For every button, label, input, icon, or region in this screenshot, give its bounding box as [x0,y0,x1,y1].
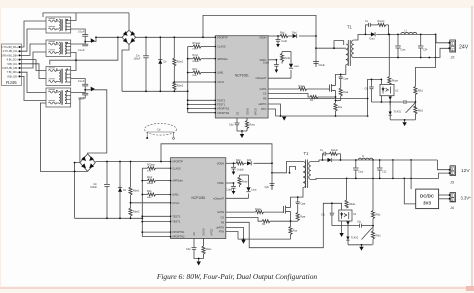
svg-text:U2: U2 [395,90,399,93]
RPD2 resistor wires [142,180,147,182]
capacitor Cvddl1 [275,60,277,65]
svg-text:UVLO: UVLO [217,80,224,84]
svg-text:Cout: Cout [400,49,405,52]
node arrow A2 [91,87,95,92]
primary snubber hook [334,41,344,49]
ground arrow for Cvdd1 [276,44,280,47]
RTN wire [268,109,275,116]
wire VPORTP node to transformer T1a primary [316,41,346,49]
diode Dout1 [371,32,375,36]
svg-text:CS: CS [263,92,267,96]
svg-text:0.1uF: 0.1uF [78,80,85,83]
output cap Cout1a [395,34,401,57]
junction dots input rail 1 [74,36,204,172]
svg-text:24V: 24V [459,44,469,50]
svg-text:RClass: RClass [147,164,156,167]
diode Ddd2 [247,161,251,165]
svg-text:Riim: Riim [193,75,198,77]
svg-text:Cbulk: Cbulk [319,64,326,67]
primary bulk cap Cbulk1 [313,62,319,68]
svg-text:Rlim: Rlim [193,68,198,71]
svg-text:Rdet2: Rdet2 [177,85,184,88]
RJ45 pin 6 wire [20,52,47,68]
capacitor C3 0.1uF [71,79,89,90]
svg-text:VDDH: VDDH [259,36,266,40]
DC/DC output wires to J4 [439,195,449,199]
resistor Rcs1 [334,103,337,111]
svg-text:1: 1 [452,42,454,46]
svg-text:Rpar: Rpar [343,91,348,94]
svg-text:Rsnub: Rsnub [331,149,339,152]
24V feedback bias vertical [388,34,390,84]
VPORTN1 wire [188,108,216,110]
svg-text:CLASS: CLASS [217,45,226,49]
wire BR2 left vertex elbow [75,163,80,219]
svg-text:Rrpd: Rrpd [147,176,153,179]
svg-text:Laux: Laux [251,189,257,192]
svg-text:ukRTN: ukRTN [258,102,266,106]
resistor Rdet2 [173,90,175,91]
diode Daux1 [289,64,293,68]
diode Daux2 [246,187,250,192]
divider Rfb2b [371,231,374,239]
resistor Rbias2 [346,178,348,208]
svg-text:DGND: DGND [247,108,250,115]
svg-text:Rsnub: Rsnub [378,20,386,23]
note ellipse terminal dot [146,137,148,139]
ethernet magnetics module TX1 [46,17,71,33]
dot VDDH node [277,35,279,37]
wire VPORTP2 to transformer T1b primary [272,162,303,173]
svg-text:NCP1081: NCP1081 [192,196,206,200]
snubber Cpar2/Rpar2 chain [291,197,300,221]
svg-text:NCP1081: NCP1081 [235,73,249,77]
output cap Cout1b [418,34,424,57]
svg-text:TEST1: TEST1 [172,220,181,224]
GATE wire with resistor Rgate1 [268,88,329,90]
svg-text:Dz: Dz [123,189,127,192]
svg-text:Dout: Dout [370,38,375,41]
capacitor Cin2 [106,162,108,185]
bulk cap vertical V1 [392,160,394,178]
J3 pin wire dots [449,169,451,171]
svg-text:0.1uF: 0.1uF [78,49,85,52]
wire left vertical from TX4 down to BR2 bottom bus [40,103,87,171]
svg-text:GATE: GATE [217,210,224,214]
svg-text:Ddd: Ddd [247,159,252,162]
left pin bus U1 [187,47,189,113]
svg-text:Cvddl: Cvddl [263,62,270,65]
shunt regulator TL431 (U7) [346,228,372,241]
svg-text:TEST1: TEST1 [217,103,226,107]
opto LED triangle [382,88,385,91]
CS wire with resistor Rs1 [268,94,335,98]
ground arrow Cvddl1 [275,70,279,73]
op-amp controller U1 NCP1081 [215,35,268,118]
svg-text:Rlim: Rlim [147,190,152,193]
svg-text:Cvddl: Cvddl [226,189,233,192]
svg-text:Rcs: Rcs [293,230,298,233]
CS2 wire with resistor Rs2 [226,218,291,222]
svg-text:Rgate: Rgate [255,208,262,211]
FB wire up to opto U2 [368,79,382,116]
return arrow marker 2 [241,240,245,244]
svg-text:Rfb2: Rfb2 [376,235,382,238]
resistor Rdet4 body [129,208,132,216]
svg-text:nRPDdet: nRPDdet [172,179,183,183]
svg-text:12V: 12V [461,168,470,174]
svg-text:FB: FB [263,97,267,101]
svg-text:Rdet2: Rdet2 [133,211,140,214]
RJ45 pin 1 wire [20,21,47,47]
divider Rfb1a [415,34,435,120]
svg-text:FB: FB [221,220,225,224]
svg-text:Cdd: Cdd [229,124,234,127]
U1 pin junction dots [215,37,217,114]
RTN2 wire [226,232,238,240]
resistor Rvdd1 body [280,54,283,62]
resistor chain Rdet3/Rdet4 [130,162,132,188]
svg-text:RTN: RTN [261,107,266,111]
svg-text:ES: ES [237,111,240,115]
svg-text:RRdet: RRdet [147,182,154,185]
DC/DC converter module U5 [416,189,439,209]
ukRTN wire [268,104,280,116]
svg-text:ILIM1: ILIM1 [172,193,179,197]
wire primary bottom to FET Q1 drain [336,65,346,86]
opto2 output nodes [332,221,373,245]
resistor Rpar2 body [296,213,299,221]
svg-text:CS: CS [220,216,224,220]
svg-text:VPORTN1: VPORTN1 [217,107,230,111]
svg-text:Rgate: Rgate [299,85,306,88]
svg-text:VPORTN2: VPORTN2 [217,111,230,115]
divider Rfb2a [372,160,374,245]
connector J4 [450,193,456,202]
TEST1 wire [188,103,216,105]
svg-text:4:BI_DC+: 4:BI_DC+ [7,58,19,62]
zener diode DZ2 [119,162,121,219]
resistor Rvdd2 body [238,177,241,185]
wire module TX3 to bus [71,60,76,70]
svg-text:TL431: TL431 [351,235,359,239]
svg-text:Cs: Cs [320,149,324,152]
svg-text:RRdet: RRdet [193,60,200,63]
U1 oscillator cap Cdd1 [235,118,248,131]
VDDL aux network circuit 2 [226,175,249,198]
svg-text:3.3V*: 3.3V* [461,196,472,201]
diode bridge BR1 [122,13,136,91]
capacitor C4 0.1uF [71,90,89,95]
RJ45 pin name labels [1,45,18,78]
transformer T1b [303,160,311,189]
bulk cap vertical V2 [410,160,412,178]
svg-text:Rrpd: Rrpd [193,54,199,57]
resistor Rlim2 body [148,193,156,196]
svg-text:Rvdd: Rvdd [284,57,290,60]
svg-text:VPORTN1: VPORTN1 [172,230,185,234]
UVLO wire [174,81,215,83]
VDDH boost network circuit 2 [226,162,272,164]
svg-text:Cvddh: Cvddh [237,168,245,171]
svg-text:RTN: RTN [219,230,224,234]
svg-text:RJ45: RJ45 [6,80,17,85]
output cap Cout2a [353,160,359,178]
ukRTN2 wire [226,228,244,240]
zener DZ2 triangle [118,188,122,192]
resistor RClass1 body [193,45,201,48]
wire primary bottom to FET Q2 drain [291,188,304,208]
fb1 ground rail [390,120,415,122]
RJ45 pin 3 wire [20,44,47,55]
ground arrow G2 [197,259,201,266]
input rail circuit 1 (bridge BR1 to U1 VPORTP) [122,15,316,112]
svg-text:ukRTN: ukRTN [216,226,224,230]
snubber Cs2 Rsnub2 [323,154,325,160]
diode Ddd1 [293,34,297,38]
svg-text:Rfb1: Rfb1 [418,90,424,93]
RJ45 pin dots [19,46,21,77]
svg-text:Cvdd: Cvdd [281,40,287,43]
resistor Rdd1 [280,34,288,37]
svg-text:Dz: Dz [164,61,168,64]
svg-text:3:RX+/BI_DB+: 3:RX+/BI_DB+ [1,53,18,57]
wire bridge BR1 left elbow down to mid bus [50,37,118,64]
diode Dout2 [328,158,332,162]
VPORTN2-2 wire [142,236,170,238]
svg-text:63.4: 63.4 [147,170,152,172]
opto2 LED triangle [340,213,343,216]
controller U4 NCP1081 [171,158,226,239]
capacitor Cvddh2 [231,163,236,171]
VDDH boost network circuit 1 [268,35,316,37]
resistor Rdd2 [236,162,244,165]
zener DZ1 triangle [158,60,162,64]
svg-text:100uF: 100uF [90,186,97,189]
svg-text:0.1uF: 0.1uF [78,30,85,33]
svg-text:J4: J4 [450,206,454,210]
svg-text:VPORTP: VPORTP [172,160,183,164]
svg-text:Ddd: Ddd [292,32,297,35]
svg-text:T1: T1 [347,25,353,30]
svg-text:Laux: Laux [294,65,300,68]
ethernet magnetics module TX2 [46,40,71,57]
ground arrow Cvddh2 [232,172,236,175]
cap Cfb2 [330,203,335,225]
node arrow A1 [91,38,95,43]
zener diode DZ1 [158,37,162,91]
svg-text:RClass: RClass [193,42,202,45]
connector J2 [450,40,456,52]
transistor Q2 MOSFET [284,206,291,214]
RPD resistor wires [188,58,193,60]
transistor Q1 MOSFET [330,84,336,92]
svg-text:Rs: Rs [262,223,266,226]
svg-text:TL431: TL431 [394,110,402,114]
opto output vertical and node row [372,96,416,105]
svg-text:Rbias: Rbias [392,80,399,83]
svg-text:0.1uF: 0.1uF [78,98,85,101]
svg-text:U2: U2 [353,213,357,216]
VPORTP2 top bus [161,144,272,190]
svg-text:Cout: Cout [358,171,363,174]
UVLO2 wire [131,202,171,204]
resistor Rcs2 [289,227,292,235]
svg-text:8:BI_DD-: 8:BI_DD- [7,74,18,78]
FB2 runner wire [226,203,339,247]
resistor Rrpd1 body [193,57,201,60]
svg-text:Cpar: Cpar [300,202,305,205]
resistor Rlim1 body [193,71,201,74]
junction dots input rail 2 [106,161,162,233]
svg-text:CLASS: CLASS [172,166,181,170]
svg-text:VDDH: VDDH [217,161,224,165]
svg-text:VPORTN2: VPORTN2 [172,235,185,239]
svg-text:Rs: Rs [310,99,314,102]
TEST2 wire [188,99,216,101]
svg-text:Cfb: Cfb [365,88,369,91]
resistor Rvdd1 leads [281,52,283,54]
opto1 emitter arrow [389,97,392,100]
svg-text:Cpk: Cpk [265,186,270,189]
RJ45 pin 7 wire [20,72,47,92]
svg-text:Riim: Riim [147,197,152,199]
svg-text:TEST2: TEST2 [217,98,226,102]
Q1 source/sense vertical [335,91,337,117]
svg-text:Rdd: Rdd [280,32,285,35]
svg-text:C24: C24 [423,49,428,52]
svg-text:nClassAT: nClassAT [213,196,224,200]
CLASS resistor RCl1 wires [188,46,193,48]
secondary return rail circuit 2 [311,160,449,180]
DC/DC input wires [404,178,415,204]
svg-text:Cpar: Cpar [343,77,348,80]
svg-text:Rfb2: Rfb2 [418,110,424,113]
ground arrow opto2 [339,233,343,237]
opto2 input elbow [339,203,342,210]
svg-text:ES: ES [193,232,196,236]
svg-text:Rdet1: Rdet1 [133,190,140,193]
connector J3 [450,166,456,176]
svg-text:nRPDdet: nRPDdet [217,57,228,61]
TEST2-2 wire [142,215,170,217]
primary return rail circuit 1 [276,115,368,117]
resistor Rdet1 body [173,58,176,66]
U1 oscillator resistor Rosc1 [245,118,248,131]
resistor Rpar1 body [339,88,342,96]
ground arrow G1 [240,131,244,138]
cap Cfb1 [369,79,374,102]
circuit 2 input rail from bridge BR2 [75,144,272,237]
resistor Rdet2 body [173,82,176,90]
optocoupler U2 [380,84,394,95]
svg-text:Lf: Lf [362,155,364,158]
ethernet magnetics module TX4 [46,88,71,107]
RJ45 pin 5 wire [20,64,47,79]
ethernet magnetics module TX3 [46,67,71,86]
svg-text:Rvdd: Rvdd [242,181,248,184]
wire module TX2 to bus [71,53,76,61]
svg-text:DC/DC: DC/DC [420,194,435,199]
capacitor Cin1 [143,37,149,91]
svg-text:1:TX+/BI_DA+: 1:TX+/BI_DA+ [1,45,18,49]
svg-text:ILIM1: ILIM1 [217,71,224,75]
ground arrow Cvddl2 [232,191,236,194]
svg-text:Cs: Cs [365,20,369,23]
J4 pin wire dots [449,194,451,196]
svg-text:TEST2: TEST2 [172,214,181,218]
U4 oscillator cap Cdd2 [192,239,204,259]
Q2 source/sense vertical [290,212,292,240]
output cap Cout2b [377,160,383,178]
VDDL aux network circuit 1 [268,52,291,79]
svg-text:Rdd: Rdd [236,159,241,162]
divider Rfb1b [414,106,417,114]
capacitor Cvdd1 [276,36,281,44]
resistor Rsnub1 body [378,23,386,26]
svg-text:T1: T1 [304,151,310,156]
top bus wire from module TX1 to bridge BR1 [71,13,76,21]
U4 oscillator resistor Rosc2 [202,239,205,259]
VPORTP top bus to transformer T1a [203,15,316,65]
wire cap junction to bridge BR1 left [85,37,122,41]
diode Daux1 leads [290,52,292,64]
VPORTN1-2 wire [142,231,170,233]
return arrow marker [282,117,286,121]
wire cap junction 2 to bridge BR2 top [85,90,107,154]
svg-text:100uF: 100uF [134,58,141,61]
svg-text:Cfb: Cfb [321,214,325,217]
svg-text:VDDL: VDDL [217,181,224,185]
CLASS2 resistor wires [142,167,147,169]
opto2 emitter arrow [346,222,349,225]
capacitor C1 0.1uF [71,29,89,42]
svg-text:nClassAT: nClassAT [255,76,266,80]
svg-text:2: 2 [452,47,454,51]
svg-text:Rosc: Rosc [206,248,212,251]
svg-text:Cdc: Cdc [357,221,362,224]
snubber Cs1 Rsnub1 [365,25,368,35]
svg-text:Rfb1: Rfb1 [376,214,382,217]
TEST1-2 wire [142,221,170,223]
peak cap Cpk2 [270,184,275,190]
svg-text:Cd: Cd [157,128,161,132]
RJ45 pin 2 wire [20,29,47,51]
dot on Cdd join [241,130,243,132]
svg-text:2:TX-/BI_DA-: 2:TX-/BI_DA- [3,49,19,53]
svg-text:J3: J3 [450,181,454,185]
svg-text:Lf: Lf [405,30,407,33]
svg-text:C12: C12 [382,171,387,174]
optocoupler U6 [339,210,352,221]
wire module TX4 tap down to bridge BR2 left [80,95,85,163]
resistor Rbias1 [388,77,391,85]
svg-text:Rpar: Rpar [300,216,305,219]
note ellipse Cd [145,124,177,140]
svg-text:7:BI_DD+: 7:BI_DD+ [7,70,19,74]
transformer T1a [346,40,354,66]
ground arrow fb2 rail [359,245,363,251]
svg-text:Rosc: Rosc [250,124,256,127]
svg-text:J2: J2 [451,55,455,59]
RJ45 pin 4 wire [20,60,47,71]
resistor Rrpd2 body [148,179,156,182]
left pin bus U4 [141,168,143,236]
diode bridge BR2 [80,154,95,172]
svg-text:DGND: DGND [203,228,206,235]
nClassAT wire [268,77,291,79]
capacitor C2 0.1uF [71,42,89,46]
